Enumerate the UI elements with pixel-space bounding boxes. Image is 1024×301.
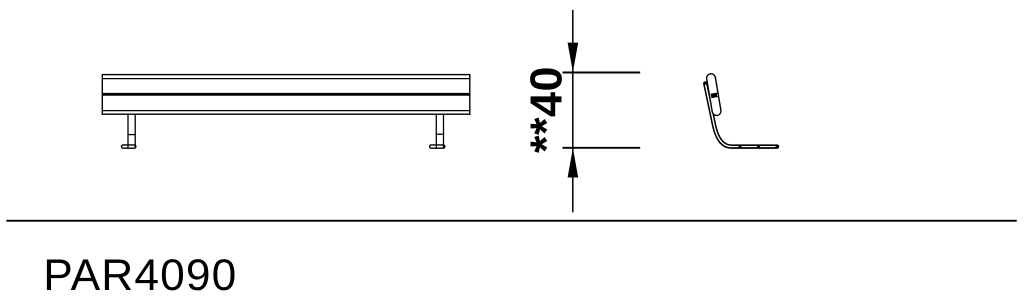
left leg tube right edge bbox=[134, 114, 136, 148]
front view: seat beam outline bbox=[102, 75, 470, 115]
side view: foot tube inner white bbox=[732, 146, 776, 148]
side view: bent leg tube outer bbox=[705, 84, 777, 147]
side view: foot weld break 2 bbox=[757, 146, 760, 148]
side view: seat plank cross-section (two planks) bbox=[706, 73, 722, 116]
front view: plank gap thick line bbox=[102, 93, 470, 96]
left leg weld tick bbox=[127, 134, 135, 136]
front view: upper chamfer line bbox=[102, 78, 470, 80]
bottom rule bbox=[6, 220, 1016, 222]
side view: plank gap lower edge bbox=[711, 96, 718, 97]
side view: gap bracket dark fill bbox=[711, 93, 718, 98]
svg-text:PAR4090: PAR4090 bbox=[43, 251, 237, 300]
right leg weld tick bbox=[436, 133, 444, 135]
dimension vertical line bbox=[572, 10, 574, 212]
dimension arrow down bbox=[568, 43, 579, 73]
left foot plate bbox=[122, 145, 136, 148]
svg-text:**40: **40 bbox=[521, 66, 572, 153]
right leg tube right edge bbox=[443, 114, 445, 148]
right foot plate bbox=[430, 145, 445, 148]
dimension arrow up bbox=[568, 148, 579, 178]
extension line top bbox=[563, 72, 641, 74]
extension line bottom bbox=[563, 147, 641, 149]
side view: foot weld break 1 bbox=[739, 146, 742, 148]
right leg tube left edge bbox=[435, 114, 437, 148]
side view: plank gap upper edge bbox=[711, 93, 718, 94]
front view: lower chamfer line bbox=[102, 110, 470, 112]
side view: bent leg tube inner white bbox=[706, 85, 732, 147]
left leg tube left edge bbox=[127, 114, 129, 148]
